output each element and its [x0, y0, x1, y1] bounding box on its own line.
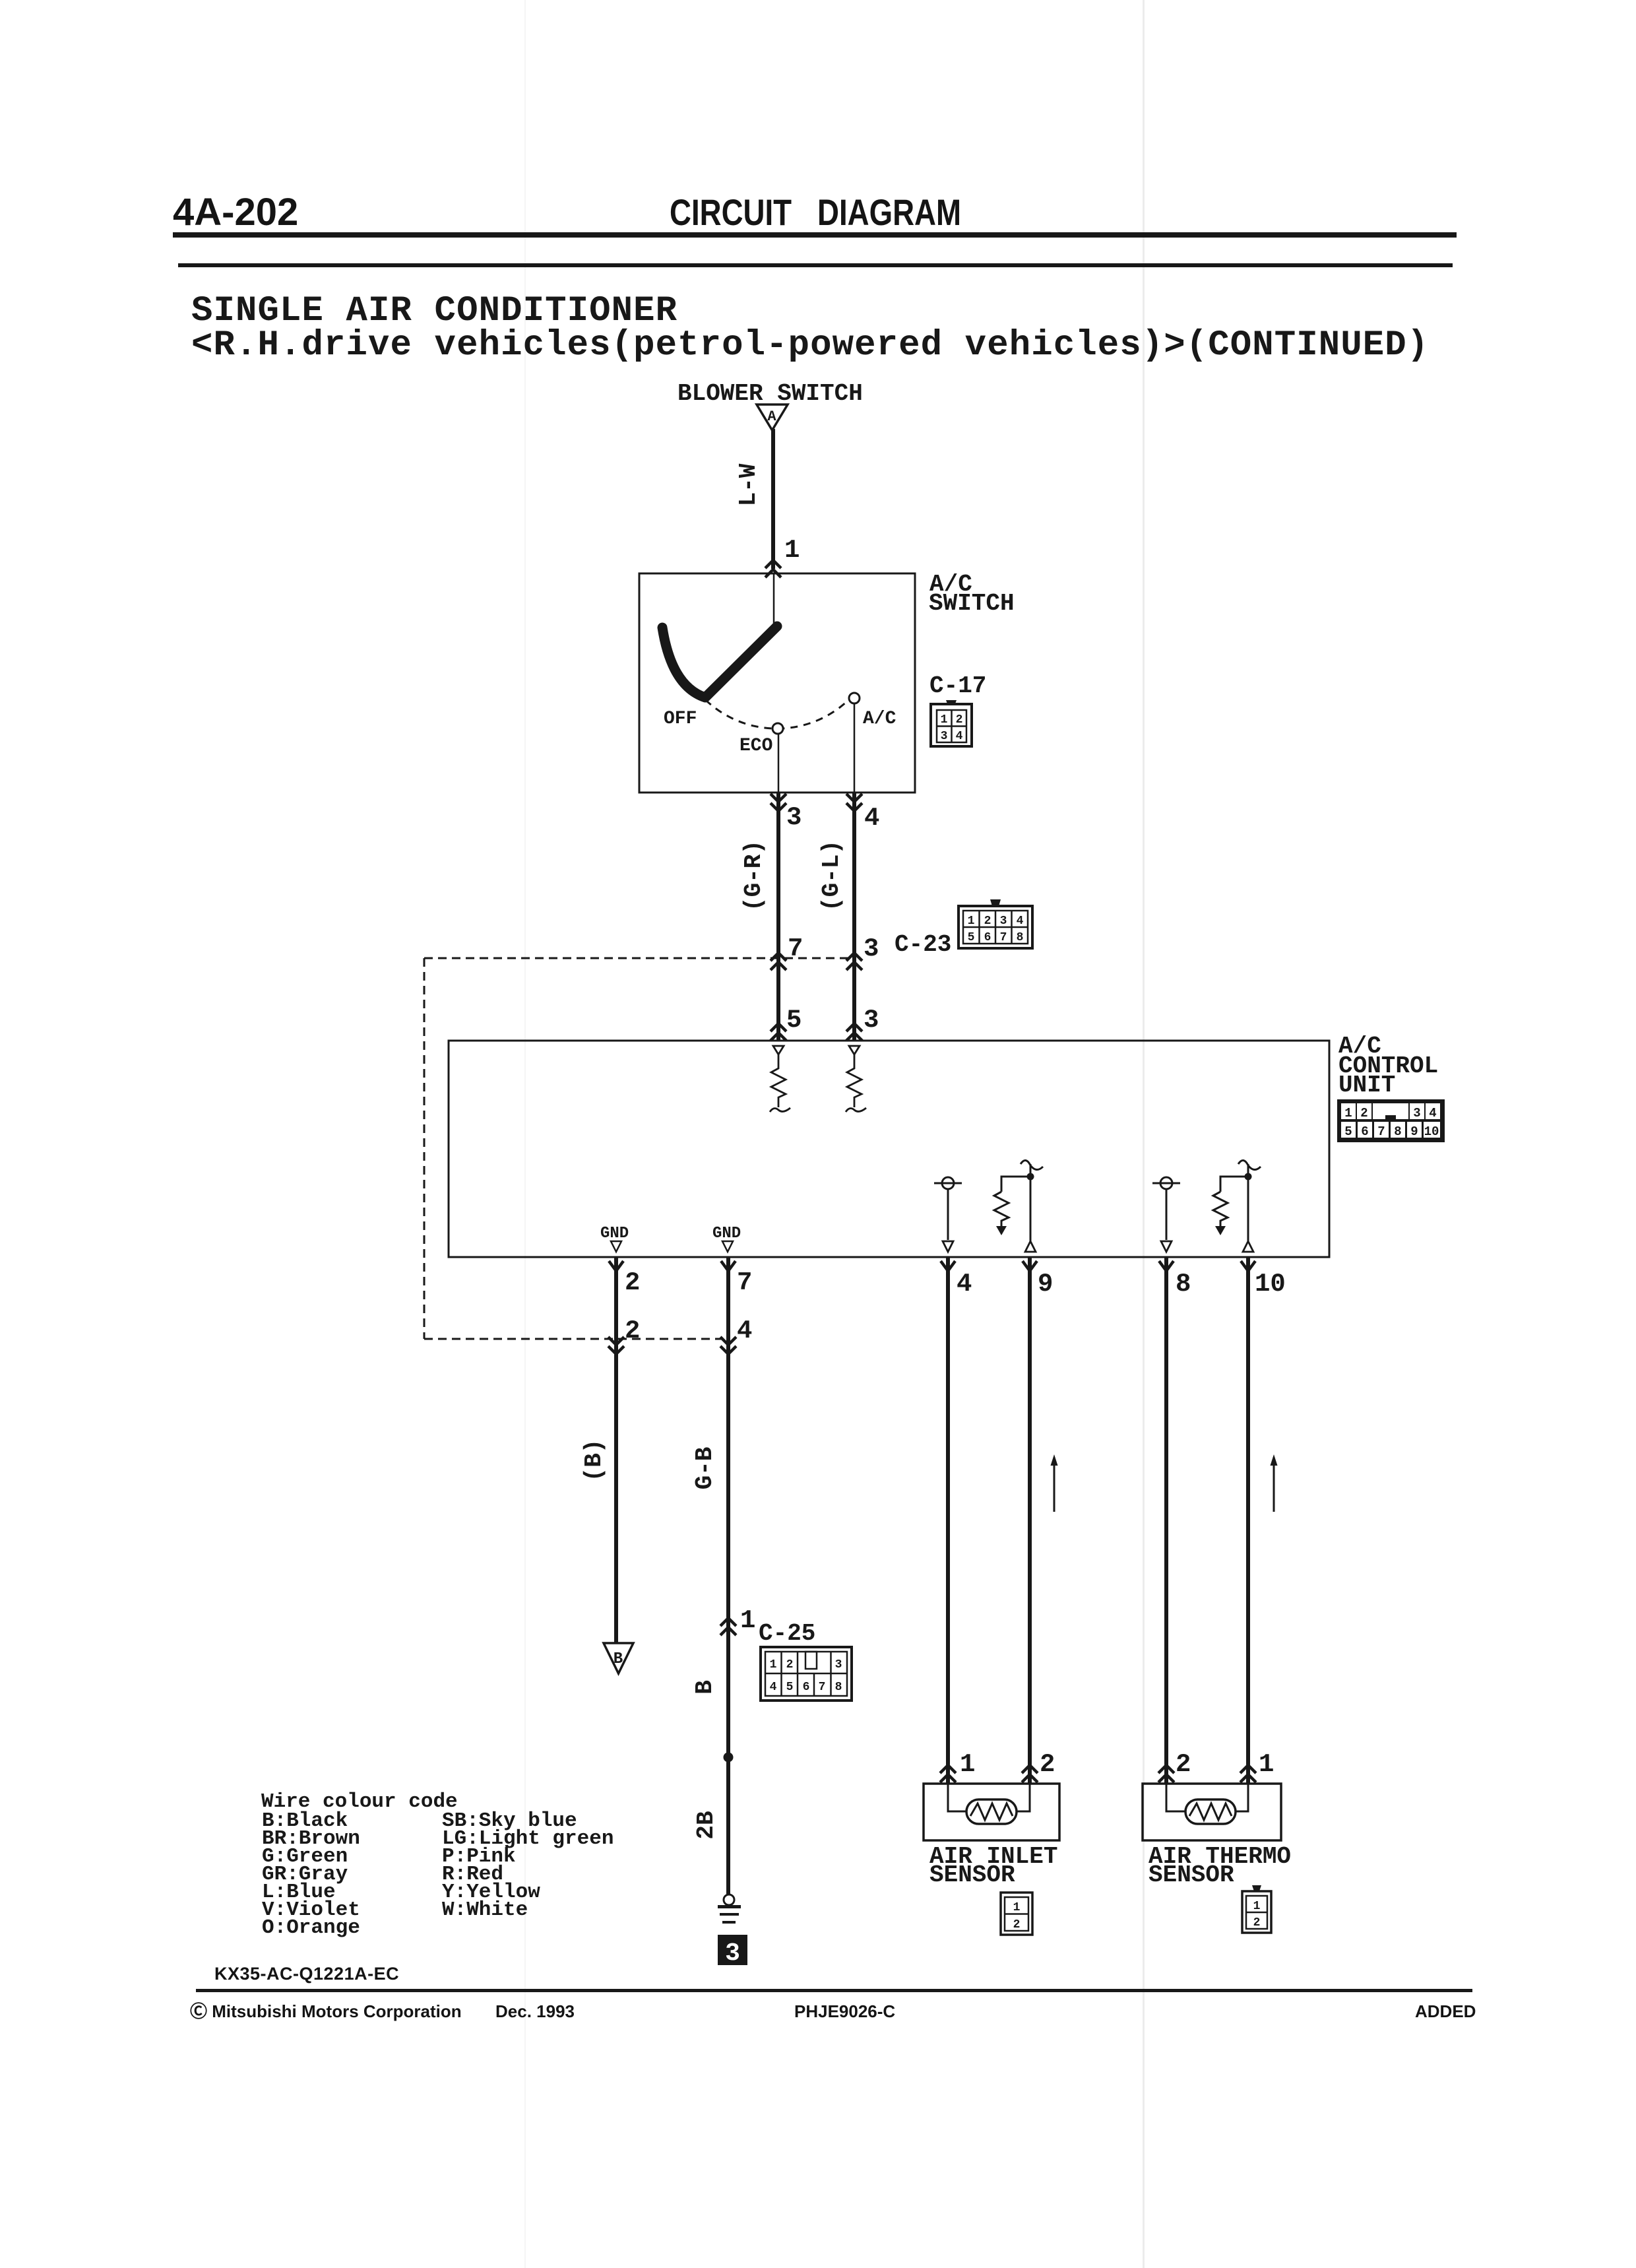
direction arrow (air thermo sensor signal) — [1271, 1454, 1278, 1512]
svg-text:6: 6 — [803, 1681, 810, 1694]
GND triangle (pin 2) — [611, 1241, 621, 1252]
svg-text:8: 8 — [1176, 1270, 1191, 1299]
air inlet sensor internal wires — [948, 1784, 1030, 1811]
svg-text:G-B: G-B — [691, 1447, 718, 1490]
terminal at control unit pin 7 — [721, 1261, 736, 1271]
pull-up resistor (pin 10 circuit) — [1213, 1160, 1261, 1252]
header rule thin — [178, 263, 1453, 267]
terminal chevrons air thermo sensor pin 2 — [1158, 1765, 1174, 1782]
svg-text:2: 2 — [1013, 1918, 1021, 1931]
terminal chevrons air inlet sensor pin 1 — [940, 1765, 956, 1782]
svg-text:1: 1 — [770, 1658, 777, 1671]
svg-text:2: 2 — [625, 1316, 640, 1345]
dashed travel arc OFF-ECO-A/C — [697, 690, 852, 729]
terminal chevrons at pin 1 — [765, 560, 781, 577]
air thermo sensor box — [1143, 1784, 1281, 1840]
air thermo sensor internal wires — [1166, 1784, 1248, 1811]
svg-text:3: 3 — [1413, 1106, 1420, 1120]
svg-text:6: 6 — [1361, 1124, 1368, 1139]
svg-text:5: 5 — [1344, 1124, 1352, 1139]
connector A/C control unit pin grid — [1337, 1099, 1445, 1142]
svg-text:(B): (B) — [581, 1439, 608, 1482]
resistor R (pin 5 input) — [770, 1046, 790, 1112]
GND triangle (pin 7) — [722, 1241, 733, 1252]
terminal at control unit pin 9 — [1022, 1261, 1037, 1271]
svg-text:1: 1 — [784, 536, 800, 565]
sensor input terminal (pin 8) crossed circle — [1152, 1177, 1180, 1240]
harness dashed boundary left — [424, 958, 425, 1339]
svg-text:9: 9 — [1410, 1124, 1418, 1139]
svg-text:SENSOR: SENSOR — [929, 1862, 1015, 1889]
svg-text:1: 1 — [1013, 1901, 1021, 1914]
svg-text:GND: GND — [600, 1225, 629, 1243]
terminal chevrons at control unit pin 3 — [846, 1023, 862, 1041]
wire pivot (inside switch box) — [773, 573, 775, 627]
thermistor (air thermo sensor) — [1185, 1799, 1236, 1824]
svg-text:<R.H.drive vehicles(petrol-pow: <R.H.drive vehicles(petrol-powered vehic… — [191, 325, 1429, 366]
svg-text:CIRCUIT: CIRCUIT — [670, 192, 792, 233]
open triangle pin 10 — [1243, 1241, 1253, 1252]
terminal chevrons air inlet sensor pin 2 — [1022, 1765, 1038, 1782]
harness crossing chevrons wire G-B — [720, 1337, 736, 1354]
svg-text:SENSOR: SENSOR — [1148, 1862, 1234, 1889]
wire control unit pin 10 to air thermo sensor pin 1 — [1246, 1258, 1250, 1784]
svg-text:1: 1 — [1344, 1106, 1352, 1120]
svg-text:DIAGRAM: DIAGRAM — [817, 192, 961, 233]
svg-text:2: 2 — [625, 1268, 640, 1297]
open triangle pin 9 — [1025, 1241, 1036, 1252]
svg-text:3: 3 — [835, 1658, 842, 1671]
svg-text:B: B — [613, 1650, 623, 1668]
svg-text:2: 2 — [1176, 1750, 1191, 1779]
svg-text:3: 3 — [941, 730, 948, 743]
svg-text:C-23: C-23 — [895, 931, 951, 958]
thermistor (air inlet sensor) — [966, 1799, 1017, 1824]
chassis ground symbol — [718, 1895, 741, 1922]
terminal chevrons air thermo sensor pin 1 — [1240, 1765, 1256, 1782]
C-23 crossing chevrons wire G-R — [771, 953, 786, 970]
direction arrow (air inlet sensor signal) — [1051, 1454, 1058, 1512]
connector C-17 pin grid — [931, 700, 972, 746]
svg-text:5: 5 — [968, 931, 975, 944]
terminal at control unit pin 10 — [1241, 1261, 1255, 1271]
ground reference box 3 — [718, 1935, 747, 1968]
svg-text:Dec. 1993: Dec. 1993 — [495, 2001, 575, 2021]
terminal chevrons pin 4 below switch box — [846, 794, 862, 811]
svg-text:B: B — [691, 1680, 718, 1695]
svg-text:7: 7 — [737, 1268, 752, 1297]
terminal chevrons at control unit pin 5 — [771, 1023, 786, 1041]
header rule thick — [173, 232, 1457, 238]
wire 2B junction to chassis ground — [726, 1757, 730, 1895]
svg-text:7: 7 — [788, 934, 803, 963]
svg-text:3: 3 — [786, 803, 802, 832]
wire control unit pin 4 to air inlet sensor pin 1 — [946, 1258, 950, 1784]
svg-text:7: 7 — [1377, 1124, 1385, 1139]
resistor R (pin 3 input) — [846, 1046, 866, 1112]
connector triangle A (blower switch) — [757, 405, 788, 430]
wire control unit pin 8 to air thermo sensor pin 2 — [1164, 1258, 1168, 1784]
svg-text:2: 2 — [956, 713, 963, 727]
svg-text:C-17: C-17 — [929, 672, 986, 699]
svg-text:1: 1 — [1259, 1750, 1274, 1779]
svg-text:4: 4 — [956, 730, 963, 743]
ground triangle B — [604, 1643, 633, 1673]
svg-text:BLOWER SWITCH: BLOWER SWITCH — [677, 380, 863, 407]
wire A/C contact to box bottom — [854, 703, 856, 793]
svg-text:4: 4 — [1429, 1106, 1436, 1120]
svg-text:9: 9 — [1038, 1270, 1053, 1299]
open triangle pin 4 — [943, 1241, 953, 1252]
svg-text:OFF: OFF — [664, 709, 697, 729]
svg-text:W:White: W:White — [442, 1898, 528, 1922]
harness dashed boundary bottom — [424, 1338, 728, 1340]
svg-text:GND: GND — [712, 1225, 741, 1243]
svg-text:7: 7 — [1000, 931, 1007, 944]
C-23 crossing chevrons wire G-L — [846, 953, 862, 970]
pull-up resistor (pin 9 circuit) — [994, 1160, 1043, 1252]
air inlet sensor box — [924, 1784, 1059, 1840]
svg-text:1: 1 — [968, 915, 975, 928]
ground arrow (pin 10 resistor) — [1215, 1226, 1226, 1235]
terminal chevrons pin 3 below switch box — [771, 794, 786, 811]
svg-text:O:Orange: O:Orange — [262, 1916, 360, 1939]
sensor input terminal (pin 4) crossed circle — [934, 1177, 962, 1240]
svg-text:8: 8 — [1017, 931, 1024, 944]
svg-text:8: 8 — [1394, 1124, 1401, 1139]
svg-text:8: 8 — [835, 1681, 842, 1694]
terminal at control unit pin 2 — [609, 1261, 623, 1271]
wire (B) control unit pin 2 to ground — [614, 1258, 618, 1642]
footer rule — [196, 1989, 1472, 1992]
svg-text:2: 2 — [1360, 1106, 1368, 1120]
wire G-B control unit pin 7 to chassis ground — [726, 1258, 730, 1757]
svg-text:2: 2 — [786, 1658, 794, 1671]
ECO contact circle — [772, 723, 783, 734]
harness dashed boundary top (C-23) — [424, 957, 855, 959]
svg-text:PHJE9026-C: PHJE9026-C — [794, 2001, 895, 2021]
terminal at control unit pin 8 — [1159, 1261, 1174, 1271]
junction dot wire B/2B — [724, 1753, 734, 1763]
terminal at control unit pin 4 — [941, 1261, 955, 1271]
svg-text:3: 3 — [864, 1006, 879, 1035]
svg-text:L-W: L-W — [735, 463, 762, 506]
svg-text:KX35-AC-Q1221A-EC: KX35-AC-Q1221A-EC — [214, 1964, 399, 1984]
svg-text:5: 5 — [786, 1006, 802, 1035]
svg-text:2: 2 — [984, 915, 991, 928]
svg-text:2: 2 — [1040, 1750, 1055, 1779]
svg-text:UNIT: UNIT — [1338, 1072, 1395, 1099]
svg-text:1: 1 — [1253, 1900, 1261, 1913]
open triangle pin 8 — [1161, 1241, 1172, 1252]
svg-text:A/C: A/C — [863, 709, 897, 729]
junction dot (pin 10 circuit) — [1245, 1173, 1252, 1181]
svg-text:4: 4 — [957, 1270, 972, 1299]
svg-text:(G-L): (G-L) — [818, 840, 845, 911]
A/C control unit box — [449, 1041, 1329, 1257]
svg-text:A: A — [767, 408, 776, 425]
wire (G-L) pin4 to control unit pin3 — [852, 793, 856, 1041]
svg-text:ADDED: ADDED — [1415, 2001, 1476, 2021]
svg-text:ECO: ECO — [739, 736, 772, 756]
svg-text:4: 4 — [737, 1316, 752, 1345]
svg-text:10: 10 — [1424, 1124, 1439, 1139]
wire L-W from blower switch to A/C switch pin 1 — [771, 429, 775, 569]
svg-text:(G-R): (G-R) — [740, 840, 767, 911]
svg-text:1: 1 — [740, 1606, 755, 1635]
svg-text:2: 2 — [1253, 1916, 1261, 1929]
connector C-25 pin grid — [761, 1647, 852, 1701]
A/C switch box — [639, 573, 915, 793]
svg-text:5: 5 — [786, 1681, 794, 1694]
svg-text:4A-202: 4A-202 — [173, 191, 298, 234]
A/C contact circle — [849, 693, 860, 703]
svg-text:C-25: C-25 — [759, 1620, 815, 1647]
svg-text:1: 1 — [960, 1750, 975, 1779]
connector air thermo sensor pin grid — [1242, 1885, 1271, 1933]
svg-text:3: 3 — [864, 934, 879, 963]
connector air inlet sensor pin grid — [1001, 1893, 1032, 1935]
svg-text:6: 6 — [984, 931, 991, 944]
svg-text:4: 4 — [770, 1681, 777, 1694]
svg-text:1: 1 — [941, 713, 948, 727]
junction dot (pin 9 circuit) — [1027, 1173, 1034, 1181]
svg-text:SWITCH: SWITCH — [929, 590, 1015, 617]
switch arm (moving contact, points to OFF) — [662, 626, 777, 697]
ground arrow (pin 9 resistor) — [996, 1226, 1007, 1235]
svg-text:4: 4 — [864, 804, 879, 833]
C-25 crossing chevrons — [720, 1618, 736, 1635]
harness crossing chevrons wire (B) — [608, 1337, 624, 1354]
svg-text:2B: 2B — [693, 1811, 720, 1839]
connector C-23 pin grid — [959, 899, 1032, 948]
svg-text:Ⓒ Mitsubishi Motors Corporatio: Ⓒ Mitsubishi Motors Corporation — [190, 2001, 462, 2021]
wire (G-R) pin3 to control unit pin5 — [776, 793, 780, 1041]
wire colour code legend — [261, 1790, 613, 1939]
svg-text:4: 4 — [1017, 915, 1024, 928]
wire ECO contact to box bottom — [778, 734, 780, 793]
svg-text:10: 10 — [1255, 1270, 1286, 1299]
svg-text:3: 3 — [1000, 915, 1007, 928]
wire control unit pin 9 to air inlet sensor pin 2 — [1028, 1258, 1032, 1784]
svg-text:7: 7 — [819, 1681, 826, 1694]
svg-text:3: 3 — [725, 1939, 740, 1968]
